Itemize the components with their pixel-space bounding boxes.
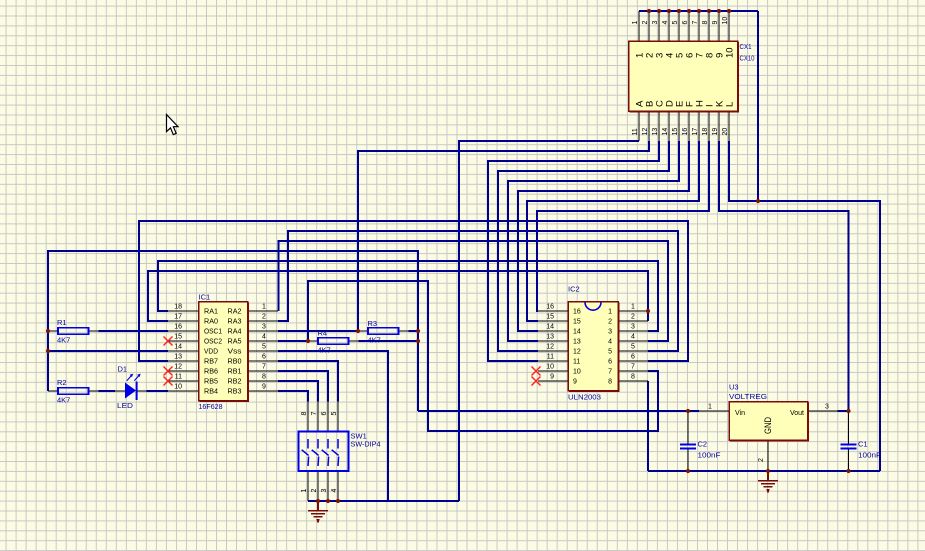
svg-text:10: 10 <box>722 17 729 25</box>
voltage regulator U3 body <box>729 402 808 441</box>
svg-text:100nF: 100nF <box>698 451 721 460</box>
svg-text:8: 8 <box>702 21 709 25</box>
svg-text:SW-DIP4: SW-DIP4 <box>351 440 381 449</box>
svg-text:RA4: RA4 <box>228 329 242 336</box>
svg-text:16F628: 16F628 <box>199 402 223 411</box>
svg-text:4K7: 4K7 <box>57 336 70 345</box>
svg-text:IC1: IC1 <box>199 293 211 302</box>
wire display pin12 to R3 node <box>358 141 649 331</box>
switch pole at x=338 <box>332 439 339 466</box>
svg-text:CX10: CX10 <box>740 54 755 63</box>
junction VDD/supply column <box>46 349 50 353</box>
svg-text:RA1: RA1 <box>204 309 218 316</box>
svg-text:C2: C2 <box>698 440 708 449</box>
svg-text:14: 14 <box>573 329 581 336</box>
svg-text:R1: R1 <box>57 318 67 327</box>
svg-text:C1: C1 <box>858 440 868 449</box>
junction switch pin4/ground <box>336 499 340 503</box>
svg-text:16: 16 <box>546 304 554 311</box>
junction dots on display top rail <box>647 9 651 13</box>
svg-text:10: 10 <box>546 364 554 371</box>
svg-text:13: 13 <box>652 128 659 136</box>
wire ground rail <box>648 470 880 472</box>
svg-text:2: 2 <box>311 489 318 493</box>
IC2 notch arc <box>585 302 601 310</box>
no-ERC cross IC1 pin15 <box>164 337 173 346</box>
svg-text:2: 2 <box>642 21 649 25</box>
svg-text:1: 1 <box>608 309 612 316</box>
wire display pin13 to IC2 pin11 <box>488 141 659 361</box>
svg-text:7: 7 <box>311 412 318 416</box>
wire Vout to C1 node <box>838 410 849 412</box>
svg-text:3: 3 <box>262 324 266 331</box>
ground at regulator <box>758 471 778 492</box>
svg-text:18: 18 <box>174 304 182 311</box>
svg-text:IC2: IC2 <box>568 285 580 294</box>
junction RA4/R3 node <box>356 329 360 333</box>
svg-text:10: 10 <box>174 384 182 391</box>
wire RB0 to switch <box>278 361 338 402</box>
junction at right rail <box>756 199 760 203</box>
svg-text:1: 1 <box>632 21 639 25</box>
wire display common top rail <box>639 10 758 12</box>
svg-text:8: 8 <box>608 379 612 386</box>
svg-text:7: 7 <box>631 364 635 371</box>
junction C1/Vout line <box>846 409 850 413</box>
switch pole at x=318 <box>312 439 319 466</box>
junction C1/ground rail <box>846 469 850 473</box>
svg-text:11: 11 <box>175 374 182 381</box>
svg-text:RB7: RB7 <box>204 359 218 366</box>
junction IC2 pin1 <box>646 309 650 313</box>
op IC1 16F628 body <box>199 302 248 401</box>
svg-text:13: 13 <box>546 334 554 341</box>
svg-text:3: 3 <box>631 324 635 331</box>
svg-text:4: 4 <box>631 334 635 341</box>
svg-text:7: 7 <box>608 369 612 376</box>
wire VDD pin to supply column <box>48 350 168 352</box>
svg-text:1: 1 <box>301 489 308 493</box>
svg-text:12: 12 <box>573 349 581 356</box>
svg-text:6: 6 <box>631 354 635 361</box>
SW1 pin stubs <box>307 402 309 432</box>
svg-text:15: 15 <box>672 128 679 136</box>
svg-text:9: 9 <box>550 374 554 381</box>
svg-text:16: 16 <box>174 324 182 331</box>
svg-text:7: 7 <box>692 21 699 25</box>
display top pin stubs <box>638 11 640 41</box>
svg-text:RA3: RA3 <box>228 319 242 326</box>
svg-text:D1: D1 <box>118 365 128 374</box>
svg-text:R3: R3 <box>368 319 378 328</box>
svg-text:5: 5 <box>672 21 679 25</box>
wire RA5 to R4 node <box>278 340 308 342</box>
svg-text:4: 4 <box>262 334 266 341</box>
op IC2 ULN2003 body <box>568 302 618 391</box>
wire IC2 pin8 to ground rail <box>647 381 649 471</box>
svg-text:CX1: CX1 <box>740 42 752 51</box>
junction R1/supply column <box>46 329 50 333</box>
svg-text:VOLTREG: VOLTREG <box>729 392 767 401</box>
svg-text:VDD: VDD <box>204 349 218 356</box>
svg-text:18: 18 <box>702 128 709 136</box>
wire C2 bottom lead <box>687 449 689 472</box>
wire RA3 to IC2 pin5 <box>278 231 678 351</box>
U3 pin stubs <box>699 410 729 412</box>
svg-text:2: 2 <box>631 314 635 321</box>
svg-text:1: 1 <box>708 404 712 411</box>
svg-text:8: 8 <box>262 374 266 381</box>
svg-text:16: 16 <box>682 128 689 136</box>
resistor R2 <box>48 388 99 394</box>
svg-text:11: 11 <box>573 359 580 366</box>
wire R4 right lead to +V column <box>359 340 419 342</box>
wire display pin20 to far right vertical <box>729 141 880 471</box>
resistor R1 <box>48 328 99 334</box>
svg-text:6: 6 <box>608 359 612 366</box>
wire display pin16 to IC2 pin14 <box>518 141 689 331</box>
wire R1 to OSC1 <box>99 330 169 332</box>
svg-text:R2: R2 <box>57 378 67 387</box>
svg-text:8: 8 <box>631 374 635 381</box>
svg-text:11: 11 <box>547 354 554 361</box>
svg-text:17: 17 <box>174 314 182 321</box>
junction C2/ground rail <box>686 469 690 473</box>
svg-text:8: 8 <box>301 412 308 416</box>
IC1 right pin stubs <box>248 310 279 312</box>
wire LED to RB4 <box>147 390 169 392</box>
wire display pin11 to switch ground rail <box>459 141 639 501</box>
svg-text:OSC2: OSC2 <box>204 339 222 346</box>
svg-text:12: 12 <box>546 344 554 351</box>
svg-text:6: 6 <box>262 354 266 361</box>
svg-text:3: 3 <box>652 21 659 25</box>
svg-text:3: 3 <box>825 404 829 411</box>
svg-text:19: 19 <box>712 128 719 136</box>
svg-text:RA0: RA0 <box>204 319 218 326</box>
resistor R3 <box>358 328 409 334</box>
wire RB2 to switch <box>278 381 318 402</box>
junction regulator GND/ground rail <box>766 469 770 473</box>
display CX1 body <box>629 41 738 111</box>
svg-text:4: 4 <box>608 339 612 346</box>
switch pole at x=328 <box>322 439 329 466</box>
svg-text:Vin: Vin <box>735 410 745 417</box>
wire display pin18 to IC2 pin16 <box>537 141 709 311</box>
svg-text:2: 2 <box>758 458 765 462</box>
svg-text:20: 20 <box>722 128 729 136</box>
svg-text:14: 14 <box>546 324 554 331</box>
svg-text:15: 15 <box>546 314 554 321</box>
svg-text:GND: GND <box>763 417 773 434</box>
resistor R4 <box>308 338 359 344</box>
wire R2 to LED <box>99 390 116 392</box>
junction R4/+V column <box>416 339 420 343</box>
svg-text:2: 2 <box>262 314 266 321</box>
svg-text:5: 5 <box>608 349 612 356</box>
svg-text:RB0: RB0 <box>228 359 242 366</box>
switch pole at x=308 <box>302 439 309 466</box>
wire C2 top lead <box>687 411 689 445</box>
svg-text:2: 2 <box>608 319 612 326</box>
svg-text:9: 9 <box>573 379 577 386</box>
wire RA2 to IC2 pin4 <box>279 241 669 341</box>
wire RA0 to IC2 pins1-2 <box>148 271 648 321</box>
svg-text:OSC1: OSC1 <box>204 329 222 336</box>
capacitor C1 <box>841 445 857 449</box>
svg-text:4: 4 <box>331 489 338 493</box>
ground at switch <box>308 501 328 522</box>
svg-text:RA5: RA5 <box>228 339 242 346</box>
wire display pin17 to IC2 pin15 <box>527 141 699 321</box>
display bottom pin stubs <box>638 111 640 141</box>
IC1 left pin stubs <box>168 310 199 312</box>
wire display pin19 to Vout net <box>719 141 849 411</box>
wire display pin15 to IC2 pin13 <box>508 141 679 341</box>
svg-text:4K7: 4K7 <box>318 346 331 355</box>
svg-text:RB6: RB6 <box>204 369 218 376</box>
LED D1 <box>125 374 141 400</box>
no-ERC cross IC2 pin10 <box>532 367 541 376</box>
svg-text:9: 9 <box>712 21 719 25</box>
no-ERC cross IC1 pin11 <box>164 377 173 386</box>
svg-text:13: 13 <box>174 354 182 361</box>
wire switch ground rail <box>308 500 459 502</box>
svg-text:Vss: Vss <box>228 349 243 356</box>
svg-text:RB5: RB5 <box>204 379 218 386</box>
junction switch pin2/ground <box>316 499 320 503</box>
LED pin stubs <box>115 390 125 392</box>
svg-text:1: 1 <box>262 304 266 311</box>
svg-text:10: 10 <box>573 369 581 376</box>
wire Vss to switch ground rail <box>278 351 388 501</box>
svg-text:15: 15 <box>573 319 581 326</box>
svg-text:RB2: RB2 <box>228 379 242 386</box>
svg-text:LED: LED <box>117 401 134 410</box>
svg-text:14: 14 <box>662 128 669 136</box>
junction R3/+V column <box>416 329 420 333</box>
IC2 right pin stubs <box>618 310 648 312</box>
svg-text:L: L <box>725 102 736 107</box>
svg-text:5: 5 <box>631 344 635 351</box>
wire C1 bottom lead <box>848 449 850 472</box>
svg-text:4K7: 4K7 <box>57 396 70 405</box>
svg-text:7: 7 <box>262 364 266 371</box>
svg-text:4: 4 <box>662 21 669 25</box>
switch SW1 SW-DIP4 body <box>299 432 349 472</box>
svg-text:100nF: 100nF <box>858 451 881 460</box>
junction RA5 node <box>306 339 310 343</box>
svg-text:12: 12 <box>174 364 182 371</box>
wire +V line to Vin <box>418 410 699 412</box>
junction C2/Vin line <box>686 409 690 413</box>
svg-text:5: 5 <box>331 412 338 416</box>
wire display pin14 to IC2 pin12 <box>498 141 669 351</box>
wire RA5 to IC2 pin7 <box>308 281 658 431</box>
svg-text:4K7: 4K7 <box>368 336 381 345</box>
wire RB7 to IC2 pin6 <box>139 221 688 361</box>
svg-text:R4: R4 <box>318 329 328 338</box>
svg-text:15: 15 <box>174 334 182 341</box>
svg-text:U3: U3 <box>729 383 739 392</box>
svg-text:3: 3 <box>321 489 328 493</box>
svg-text:11: 11 <box>632 128 639 135</box>
wire R3 right lead to +V column <box>409 330 419 332</box>
svg-text:9: 9 <box>262 384 266 391</box>
svg-text:RB4: RB4 <box>204 389 218 396</box>
svg-text:13: 13 <box>573 339 581 346</box>
junction switch pin3/ground <box>326 499 330 503</box>
wire right vertical from top rail <box>757 11 759 201</box>
wire supply column to R3 R4 and Vin line <box>48 251 418 411</box>
wire RB1 to switch <box>278 371 328 402</box>
svg-text:17: 17 <box>692 128 699 136</box>
svg-text:ULN2003: ULN2003 <box>568 393 601 402</box>
wire RA4 to R3 <box>278 330 358 332</box>
svg-text:10: 10 <box>725 47 736 58</box>
svg-text:5: 5 <box>262 344 266 351</box>
svg-text:RB3: RB3 <box>228 389 242 396</box>
mouse cursor <box>167 115 179 135</box>
no-ERC cross IC2 pin9 <box>532 377 541 386</box>
svg-text:3: 3 <box>608 329 612 336</box>
wire C1 top lead <box>848 411 850 445</box>
svg-text:Vout: Vout <box>790 410 804 417</box>
svg-text:6: 6 <box>682 21 689 25</box>
IC2 left pin stubs <box>538 310 568 312</box>
svg-text:16: 16 <box>573 309 581 316</box>
svg-text:6: 6 <box>321 412 328 416</box>
svg-text:RA2: RA2 <box>228 309 242 316</box>
svg-text:12: 12 <box>642 128 649 136</box>
wire RB3 to switch <box>278 391 308 402</box>
no-ERC cross IC1 pin12 <box>164 367 173 376</box>
svg-text:14: 14 <box>174 344 182 351</box>
svg-text:1: 1 <box>631 304 635 311</box>
capacitor C2 <box>680 445 696 449</box>
wire RA1 to IC2 pin3 <box>158 261 658 331</box>
svg-text:RB1: RB1 <box>228 369 242 376</box>
